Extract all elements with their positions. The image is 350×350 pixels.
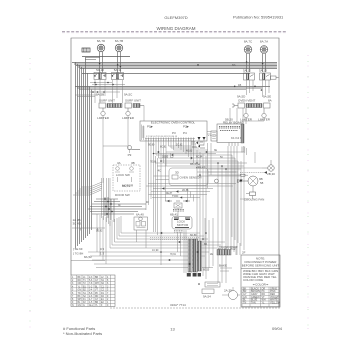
svg-text:⇜COLOR⇝: ⇜COLOR⇝ (253, 283, 269, 287)
svg-text:9A,54: 9A,54 (203, 295, 211, 299)
svg-text:DOOR SW: DOOR SW (115, 193, 130, 197)
svg-text:316A* 7714: 316A* 7714 (170, 303, 186, 307)
svg-text:6C,84: 6C,84 (196, 156, 203, 159)
svg-text:TRANSFORMER: TRANSFORMER (219, 246, 238, 249)
svg-text:9C,70: 9C,70 (122, 184, 130, 188)
svg-text:P2▶: P2▶ (183, 125, 190, 129)
svg-text:LIMITER: LIMITER (122, 116, 135, 120)
svg-text:2C,82: 2C,82 (176, 144, 183, 147)
svg-text:8A,7C: 8A,7C (244, 40, 253, 44)
svg-text:8C,81: 8C,81 (160, 146, 167, 149)
svg-text:YELLOW: YELLOW (270, 301, 281, 304)
svg-text:1B: 1B (238, 83, 241, 87)
svg-text:P4: P4 (183, 131, 187, 135)
svg-text:8A: 8A (232, 63, 236, 67)
svg-text:9E,87: 9E,87 (166, 192, 173, 195)
svg-text:09/04: 09/04 (272, 326, 283, 331)
svg-text:RD: RD (78, 280, 82, 282)
svg-text:13: 13 (170, 327, 175, 332)
svg-text:RD: RD (95, 296, 99, 298)
svg-text:SURF UNIT: SURF UNIT (125, 99, 141, 103)
svg-text:COLOR CODE: COLOR CODE (243, 278, 263, 282)
svg-text:3E: 3E (214, 149, 217, 152)
svg-text:6A,40: 6A,40 (136, 213, 144, 217)
svg-text:BEFORE SERVICING UNIT: BEFORE SERVICING UNIT (242, 264, 280, 268)
svg-text:5A,13: 5A,13 (259, 69, 267, 73)
svg-text:P9: P9 (128, 153, 132, 157)
svg-text:2B,30: 2B,30 (267, 172, 275, 176)
svg-text:PK: PK (95, 293, 99, 295)
svg-text:1C,90: 1C,90 (152, 249, 159, 252)
svg-text:5C: 5C (220, 156, 223, 159)
svg-text:BAKE: BAKE (219, 264, 227, 268)
svg-text:P3: P3 (172, 131, 176, 135)
svg-text:Publication No: 5995419931: Publication No: 5995419931 (233, 15, 284, 20)
svg-text:BK: BK (78, 296, 82, 298)
svg-text:▸8B,62: ▸8B,62 (196, 166, 206, 170)
svg-text:5A,11: 5A,11 (114, 68, 122, 72)
svg-text:8A: 8A (268, 99, 272, 103)
svg-text:COOLING FAN: COOLING FAN (244, 198, 265, 202)
svg-text:SURF UNIT: SURF UNIT (99, 99, 115, 103)
svg-text:5D,92: 5D,92 (96, 230, 103, 233)
svg-text:WH: WH (95, 283, 99, 285)
svg-text:2E: 2E (210, 253, 213, 256)
svg-text:8A,7A: 8A,7A (260, 40, 268, 44)
svg-text:58: 58 (260, 181, 264, 185)
svg-text:8A,7B: 8A,7B (115, 39, 123, 43)
svg-text:GN: GN (78, 305, 82, 307)
svg-text:TN: TN (78, 293, 81, 295)
svg-text:BR: BR (95, 302, 99, 304)
svg-text:3C 4D: 3C 4D (73, 222, 82, 226)
svg-text:TN: TN (243, 301, 246, 304)
svg-text:[ 5E 6F: [ 5E 6F (73, 247, 83, 251)
svg-text:6D,89: 6D,89 (190, 234, 197, 237)
svg-text:OR: OR (78, 283, 82, 285)
svg-text:8D: 8D (204, 243, 207, 246)
svg-text:4E,83: 4E,83 (186, 150, 193, 153)
svg-text:1 2 3 4 5 6 7 8 9 10 11 12 13: 1 2 3 4 5 6 7 8 9 10 11 12 13 14 15 (146, 136, 178, 138)
svg-text:BK: BK (78, 277, 82, 279)
svg-text:LIMITER: LIMITER (97, 116, 110, 120)
svg-text:WIRING DIAGRAM: WIRING DIAGRAM (157, 26, 196, 31)
svg-text:3B: 3B (131, 161, 135, 165)
svg-text:[ 7G 8H: [ 7G 8H (73, 252, 83, 256)
svg-text:3A: 3A (117, 161, 121, 165)
svg-text:TAN: TAN (251, 301, 256, 304)
svg-text:GN: GN (78, 290, 82, 292)
svg-text:9A,5C: 9A,5C (124, 93, 133, 97)
svg-text:7F,91: 7F,91 (170, 253, 177, 256)
svg-text:5A,10: 5A,10 (96, 68, 104, 72)
svg-text:OVEN VENT: OVEN VENT (238, 99, 256, 103)
svg-text:8A,52: 8A,52 (84, 255, 92, 259)
svg-text:BR: BR (95, 277, 99, 279)
svg-text:2F: 2F (242, 251, 246, 255)
svg-text:9 5: 9 5 (100, 247, 105, 251)
svg-text:2D,88: 2D,88 (182, 189, 189, 192)
svg-text:GY: GY (95, 280, 99, 282)
svg-text:P1▶: P1▶ (147, 125, 154, 129)
svg-text:1B,85: 1B,85 (162, 156, 169, 159)
svg-text:GY: GY (95, 299, 99, 301)
svg-text:7E,86: 7E,86 (150, 161, 157, 164)
svg-text:LOCK SW: LOCK SW (116, 173, 130, 177)
svg-text:G: G (83, 305, 85, 307)
svg-text:8E,55: 8E,55 (203, 269, 210, 272)
svg-text:6B,41: 6B,41 (170, 213, 178, 217)
svg-text:MOTOR: MOTOR (177, 223, 189, 227)
svg-text:* Non-Illustrated Parts: * Non-Illustrated Parts (63, 331, 102, 336)
svg-text:2A,35: 2A,35 (224, 289, 232, 293)
svg-text:8A,7D: 8A,7D (97, 39, 106, 43)
svg-text:9D,80: 9D,80 (148, 144, 155, 147)
svg-text:GLEFM397D: GLEFM397D (164, 15, 187, 20)
svg-text:ALL: ALL (89, 304, 94, 307)
svg-text:5A,12: 5A,12 (243, 69, 251, 73)
svg-text:WH: WH (78, 299, 82, 301)
svg-text:TOD: TOD (172, 194, 179, 198)
